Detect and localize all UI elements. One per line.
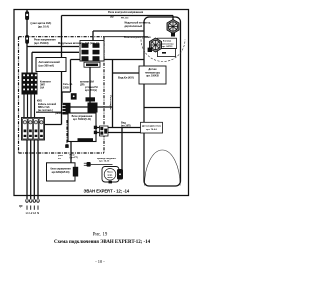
svg-text:(арт.РТ): (арт.РТ) <box>70 157 79 159</box>
svg-text:двухполюсный: двухполюсный <box>125 25 143 28</box>
svg-text:N: N <box>37 212 39 215</box>
svg-text:автомат 16А: автомат 16А <box>80 80 94 83</box>
svg-text:Автоматический: Автоматический <box>39 60 61 64</box>
svg-text:Реле контроля уровня: Реле контроля уровня <box>124 36 151 39</box>
svg-text:заземления: заземления <box>161 43 174 45</box>
svg-text:эл.: эл. <box>58 158 62 160</box>
svg-text:арт.3202(КЛ.16): арт.3202(КЛ.16) <box>52 171 70 174</box>
svg-text:Модульные автоматы 16А (хар. С: Модульные автоматы 16А (хар. С) <box>58 42 99 45</box>
svg-text:КМ1: КМ1 <box>37 100 42 103</box>
svg-text:температуры: температуры <box>145 72 160 74</box>
svg-text:провод соединит.: провод соединит. <box>97 158 117 160</box>
svg-text:Насос: Насос <box>107 172 113 174</box>
svg-text:арт. 12-13: арт. 12-13 <box>99 161 110 163</box>
svg-text:арт. 24713: арт. 24713 <box>162 45 173 48</box>
svg-text:(дв. 10 А): (дв. 10 А) <box>38 26 49 29</box>
svg-text:Реле контроля напряжения: Реле контроля напряжения <box>108 10 144 14</box>
svg-text:QF: QF <box>19 204 23 208</box>
svg-text:Комплект: Комплект <box>40 82 52 84</box>
svg-text:Рис. 19: Рис. 19 <box>93 233 108 238</box>
svg-text:арт. 70-0.6: арт. 70-0.6 <box>146 129 158 131</box>
svg-text:Реле напряж.: Реле напряж. <box>109 96 111 111</box>
svg-text:Схема подключения ЭВАН EXPERT-: Схема подключения ЭВАН EXPERT-12; -14 <box>54 240 151 245</box>
svg-text:уставка РН: уставка РН <box>85 87 98 89</box>
svg-text:(2P): (2P) <box>80 84 85 86</box>
svg-text:(арт. РН113): (арт. РН113) <box>34 42 49 45</box>
svg-text:Датчик: Датчик <box>149 69 158 71</box>
svg-text:(ин.16П): (ин.16П) <box>121 124 131 127</box>
svg-text:Датчик Давления: Датчик Давления <box>142 126 161 128</box>
svg-text:ЗИП: ЗИП <box>40 85 45 87</box>
svg-text:арт. 100435: арт. 100435 <box>146 75 159 78</box>
svg-text:(узо 300 мА): (узо 300 мА) <box>39 64 55 68</box>
svg-text:ВВГнг 5х6: ВВГнг 5х6 <box>38 107 50 109</box>
svg-text:Клемма: Клемма <box>163 41 172 43</box>
svg-text:16А: 16А <box>40 87 45 90</box>
svg-text:арт. 27А(х): арт. 27А(х) <box>85 89 97 92</box>
svg-text:L3: L3 <box>33 212 36 215</box>
svg-text:реле КМ: реле КМ <box>56 113 65 115</box>
svg-text:арт. 50291(5-41): арт. 50291(5-41) <box>73 118 91 121</box>
svg-text:цирк.: цирк. <box>108 174 113 176</box>
svg-text:РН-113: РН-113 <box>121 17 129 19</box>
svg-text:Вид Кл (KV): Вид Кл (KV) <box>118 76 134 80</box>
svg-text:Кабель сетевой: Кабель сетевой <box>38 103 57 106</box>
svg-text:насос: насос <box>107 177 112 179</box>
svg-text:Реле: Реле <box>70 154 76 156</box>
svg-text:Модульный контактор,: Модульный контактор, <box>125 22 152 25</box>
svg-text:220В: 220В <box>63 86 69 89</box>
svg-text:(не поставл.): (не поставл.) <box>38 110 53 112</box>
svg-text:ПУ: ПУ <box>111 16 115 19</box>
svg-text:- 10 -: - 10 - <box>95 259 105 264</box>
svg-text:ЭВАН EXPERT - 12; -14: ЭВАН EXPERT - 12; -14 <box>84 188 130 193</box>
svg-text:узел: узел <box>58 155 63 157</box>
